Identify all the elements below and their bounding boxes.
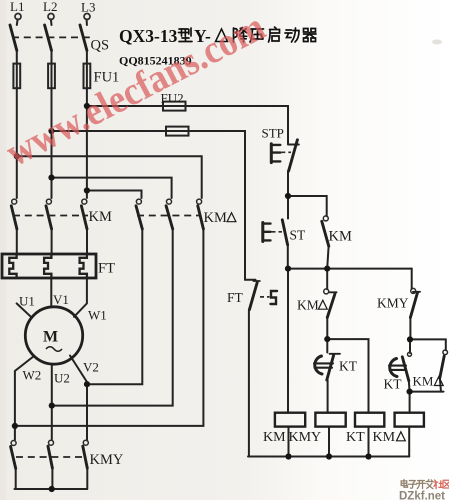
svg-text:KMY: KMY xyxy=(377,296,409,311)
svg-text:STP: STP xyxy=(262,126,284,141)
svg-text:KM: KM xyxy=(329,229,352,245)
svg-text:W2: W2 xyxy=(23,368,42,383)
svg-text:KM: KM xyxy=(413,374,434,389)
svg-text:KT: KT xyxy=(346,430,365,445)
svg-text:KM: KM xyxy=(373,430,396,445)
svg-text:V2: V2 xyxy=(83,360,99,375)
svg-text:M: M xyxy=(43,329,58,346)
svg-text:L1: L1 xyxy=(10,0,24,14)
svg-text:KM: KM xyxy=(297,298,319,313)
svg-text:DZkf.net: DZkf.net xyxy=(399,491,445,500)
svg-text:KT: KT xyxy=(384,377,403,392)
svg-text:V1: V1 xyxy=(53,292,69,307)
svg-text:U2: U2 xyxy=(54,371,70,386)
svg-text:ST: ST xyxy=(290,228,307,243)
svg-text:QX3-13: QX3-13 xyxy=(119,26,178,46)
svg-text:L2: L2 xyxy=(43,0,57,14)
svg-text:L3: L3 xyxy=(81,0,95,15)
svg-text:FT: FT xyxy=(227,290,244,305)
svg-text:KMY: KMY xyxy=(289,430,322,445)
svg-text:KM: KM xyxy=(263,430,286,445)
svg-text:KMY: KMY xyxy=(90,452,124,468)
svg-text:FT: FT xyxy=(98,261,115,277)
svg-text:KM: KM xyxy=(89,209,112,225)
svg-text:KT: KT xyxy=(339,359,358,374)
svg-text:W1: W1 xyxy=(88,308,107,323)
svg-text:KM: KM xyxy=(204,210,227,226)
svg-text:U1: U1 xyxy=(19,294,35,309)
svg-text:QS: QS xyxy=(91,38,110,54)
